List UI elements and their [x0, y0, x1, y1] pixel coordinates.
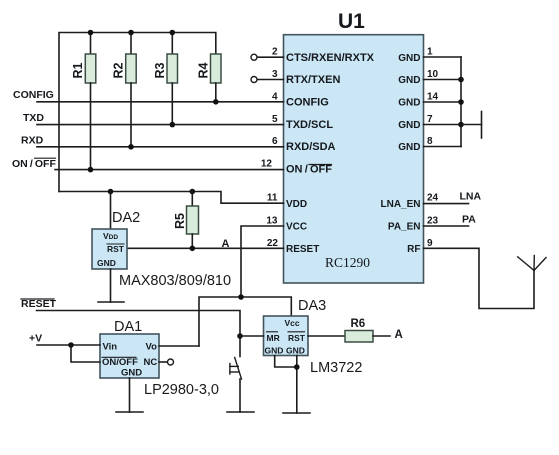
wire DA1 NC stub — [159, 361, 167, 363]
svg-text:VCC: VCC — [286, 222, 307, 233]
svg-text:GND: GND — [398, 98, 420, 109]
svg-text:GND: GND — [398, 142, 420, 153]
svg-text:DA1: DA1 — [114, 319, 142, 335]
svg-text:R1: R1 — [71, 62, 85, 78]
wire R5 bottom — [191, 234, 193, 248]
wire RESET to MR node — [37, 311, 241, 337]
svg-text:GND: GND — [286, 346, 305, 356]
junction R1/ON-OFF — [88, 167, 94, 173]
svg-text:MR: MR — [267, 333, 280, 343]
svg-text:R5: R5 — [173, 213, 187, 229]
wire pin 2 stub — [257, 56, 284, 58]
svg-text:R3: R3 — [153, 62, 167, 78]
wire U1 pin 24 LNA_EN — [424, 203, 469, 205]
junction GND pin 14 — [458, 99, 464, 105]
ground below button — [227, 411, 254, 413]
svg-text:RESET: RESET — [286, 244, 319, 255]
supervisor DA2 body — [92, 229, 127, 269]
resistor R3 — [167, 54, 178, 83]
svg-text:22: 22 — [267, 238, 279, 249]
svg-text:GND: GND — [121, 368, 142, 379]
wire R3 top — [171, 33, 173, 55]
svg-text:RXD: RXD — [21, 135, 44, 147]
push button SB1 — [239, 336, 241, 357]
resistor R5 — [187, 206, 199, 234]
junction VDD/R5 — [190, 189, 196, 195]
wire R2 bottom to RXD — [130, 83, 132, 147]
svg-text:LNA_EN: LNA_EN — [380, 199, 420, 210]
svg-text:R4: R4 — [197, 62, 211, 78]
wire GND vertical bus — [460, 57, 462, 147]
svg-text:14: 14 — [427, 92, 439, 103]
ground below DA3 — [283, 412, 310, 414]
svg-text:23: 23 — [427, 216, 439, 227]
svg-text:RC1290: RC1290 — [325, 255, 370, 270]
svg-text:GND: GND — [97, 258, 116, 268]
svg-text:GND: GND — [398, 53, 420, 64]
svg-text:RTX/TXEN: RTX/TXEN — [286, 74, 340, 86]
wire DA2 GND down — [110, 269, 112, 302]
svg-text:8: 8 — [427, 136, 433, 147]
svg-text:DA2: DA2 — [112, 210, 140, 226]
svg-text:A: A — [395, 329, 403, 341]
svg-text:CONFIG: CONFIG — [286, 97, 329, 109]
svg-text:13: 13 — [266, 216, 278, 227]
svg-text:11: 11 — [267, 193, 278, 204]
svg-text:R6: R6 — [351, 318, 366, 330]
svg-text:24: 24 — [427, 193, 439, 204]
ground below DA2 — [98, 301, 124, 303]
resistor R2 — [126, 54, 137, 83]
svg-text:Vin: Vin — [103, 342, 118, 353]
wire R3 bottom to TXD — [171, 83, 173, 125]
svg-text:R2: R2 — [112, 62, 126, 78]
wire DA2 Vdd to VDD feed — [110, 192, 112, 230]
svg-text:TXD/SCL: TXD/SCL — [286, 119, 333, 131]
svg-text:Vcc: Vcc — [285, 318, 300, 328]
svg-text:PA: PA — [462, 214, 476, 226]
wire TXD to pin 5 — [37, 124, 284, 126]
NC open circle — [168, 359, 174, 365]
ground bar right of GND bus — [481, 112, 483, 139]
svg-text:Vo: Vo — [146, 342, 158, 353]
junction bus/R3 — [170, 30, 176, 36]
svg-text:RST: RST — [288, 333, 306, 343]
svg-text:4: 4 — [272, 92, 278, 103]
svg-text:LM3722: LM3722 — [310, 360, 362, 376]
svg-text:NC: NC — [144, 357, 158, 368]
junction bus/R2 — [128, 30, 134, 36]
svg-text:A: A — [222, 238, 230, 250]
junction R3/TXD — [170, 122, 176, 128]
svg-text:GND: GND — [398, 120, 420, 131]
resistor R4 — [211, 54, 222, 83]
svg-text:12: 12 — [261, 159, 273, 170]
junction GND pin 10 — [458, 77, 464, 83]
wire R2 top — [130, 33, 132, 55]
wire GND pin 8 — [424, 146, 462, 148]
wire R1 bottom to ON/OFF — [90, 83, 92, 170]
junction R5 bottom — [190, 246, 196, 252]
wire MR node to DA3 MR — [240, 335, 264, 337]
svg-text:ON / OFF: ON / OFF — [12, 158, 56, 170]
resistor R6 — [345, 331, 373, 343]
wire GND pin 7 — [424, 124, 462, 126]
wire R1 top — [90, 33, 92, 55]
svg-text:VDD: VDD — [286, 199, 307, 210]
wire DA1 GND down — [129, 378, 131, 412]
svg-text:2: 2 — [272, 47, 278, 58]
svg-text:MAX803/809/810: MAX803/809/810 — [119, 273, 231, 289]
wire RXD to pin 6 — [37, 146, 284, 148]
wire pin 3 stub — [257, 79, 284, 81]
supervisor DA3 body — [264, 316, 309, 356]
svg-text:LNA: LNA — [460, 191, 482, 203]
wire to ground bar — [461, 124, 482, 126]
wire GND pin 14 — [424, 101, 462, 103]
wire DA1 Vo to VCC node — [159, 345, 199, 347]
wire VCC node to DA1 Vo and DA3 Vcc — [199, 297, 291, 346]
svg-text:RESET: RESET — [21, 298, 57, 310]
wire U1 pin 13 VCC down — [241, 226, 284, 297]
wire GND pin 10 — [424, 79, 462, 81]
wire DA3 GND pins joined — [275, 356, 297, 368]
svg-text:7: 7 — [427, 114, 433, 125]
antenna WA1 — [518, 257, 534, 271]
wire U1 pin 9 RF to antenna — [424, 248, 535, 308]
pin 2 open connector circle — [251, 54, 257, 60]
svg-text:10: 10 — [427, 69, 439, 80]
wire CONFIG to pin 4 — [37, 101, 284, 103]
svg-text:GND: GND — [265, 346, 284, 356]
junction R4/CONFIG — [213, 99, 219, 105]
wire ON/OFF to pin 12 — [55, 169, 284, 171]
svg-text:ON/OFF: ON/OFF — [102, 357, 138, 368]
wire VDD feed to pin 11 — [59, 192, 284, 204]
svg-text:CTS/RXEN/RXTX: CTS/RXEN/RXTX — [286, 52, 375, 64]
ground below DA1 — [116, 411, 143, 413]
svg-text:9: 9 — [427, 238, 433, 249]
junction DA3 GND — [294, 364, 300, 370]
svg-text:U1: U1 — [338, 10, 365, 33]
junction VCC node — [238, 294, 244, 300]
junction R2/RXD — [128, 144, 134, 150]
wire U1 pin 23 PA_EN — [424, 225, 469, 227]
svg-text:GND: GND — [398, 75, 420, 86]
svg-text:DA3: DA3 — [298, 298, 326, 314]
wire GND pin 1 — [424, 56, 462, 58]
svg-text:RF: RF — [407, 244, 420, 255]
svg-text:ON / OFF: ON / OFF — [286, 164, 332, 176]
svg-text:RXD/SDA: RXD/SDA — [286, 141, 336, 153]
wire +V branch to DA1 ON/OFF — [71, 345, 100, 362]
wire DA3 GND down — [296, 356, 298, 414]
junction VDD/DA2 — [108, 189, 114, 195]
wire +V to DA1 Vin — [37, 344, 100, 346]
junction MR node — [237, 333, 243, 339]
svg-text:RST: RST — [107, 244, 125, 254]
svg-text:5: 5 — [272, 114, 278, 125]
svg-text:+V: +V — [29, 333, 42, 345]
regulator DA1 body — [100, 334, 159, 378]
wire R4 bottom to CONFIG — [215, 83, 217, 102]
svg-text:6: 6 — [272, 136, 278, 147]
wire R6 to node A — [373, 335, 390, 337]
wire pull-up bus top and left drop — [59, 33, 216, 192]
pin 3 open connector circle — [251, 77, 257, 83]
wire DA2 RST to U1 pin 22 RESET — [127, 247, 284, 249]
wire R5 top — [191, 192, 193, 207]
junction GND pin 7 — [458, 122, 464, 128]
svg-text:PA_EN: PA_EN — [388, 222, 421, 233]
svg-text:1: 1 — [427, 47, 433, 58]
transceiver IC U1 body — [284, 35, 424, 283]
junction +V branch — [68, 342, 74, 348]
resistor R1 — [85, 54, 96, 83]
svg-text:LP2980-3,0: LP2980-3,0 — [144, 382, 219, 398]
junction bus/R1 — [88, 30, 94, 36]
wire button to ground — [239, 379, 241, 412]
svg-text:CONFIG: CONFIG — [13, 89, 54, 101]
svg-text:3: 3 — [272, 69, 278, 80]
svg-text:TXD: TXD — [23, 112, 44, 124]
wire DA3 RST to R6 — [308, 335, 345, 337]
